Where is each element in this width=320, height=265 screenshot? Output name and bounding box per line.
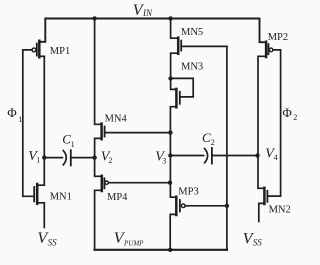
wire MN4 gate to central node <box>105 132 171 134</box>
transistor MN1 <box>34 184 44 228</box>
node junction dot MP3 gate at right bus <box>225 204 229 208</box>
wire capacitor C2 to V4 (crosses gate bus, no junction) <box>212 155 258 157</box>
wire capacitor C1 to V2 <box>71 157 95 159</box>
wire V3 to capacitor C2 <box>170 155 203 157</box>
wire phi1 gate line from MP1 bubble down to MN1 gate <box>23 50 34 196</box>
label V4 <box>265 146 277 161</box>
svg-text:Φ: Φ <box>7 105 17 120</box>
transistor MP2 <box>258 42 273 156</box>
label C1 <box>62 132 74 150</box>
wire VIN rail with corners to MP1 drain and MP2 drain <box>39 19 265 43</box>
capacitor C1 <box>63 150 71 165</box>
svg-text:2: 2 <box>211 138 215 147</box>
svg-text:IN: IN <box>142 8 153 18</box>
node junction dot MP4 gate at central vertical <box>168 181 172 185</box>
label VSS right <box>243 230 262 247</box>
transistor MP3 <box>170 197 227 250</box>
svg-text:1: 1 <box>36 156 40 165</box>
svg-text:MN4: MN4 <box>105 113 128 124</box>
svg-text:2: 2 <box>108 156 112 165</box>
svg-text:SS: SS <box>48 237 58 247</box>
node V1 junction dot <box>42 155 46 159</box>
node junction dot MN3 drain/gate <box>168 76 172 80</box>
wire phi2 gate line from MP2 bubble down to MN2 gate <box>267 50 280 196</box>
wire central vertical V3 to MP3 drain and MP4 gate junction <box>170 156 175 198</box>
label VIN <box>133 2 153 19</box>
svg-text:4: 4 <box>274 153 278 162</box>
node junction on VIN rail at MN4 drain <box>92 16 96 20</box>
node V2 junction dot <box>92 155 96 159</box>
capacitor C2 <box>205 148 212 164</box>
label V2 <box>101 149 113 165</box>
transistor MN4 with drain wire from VIN rail <box>95 19 105 158</box>
node junction dot MP3 source on VPUMP rail <box>168 248 172 252</box>
svg-text:SS: SS <box>253 238 262 248</box>
svg-text:C: C <box>202 130 211 145</box>
node V3 junction dot <box>168 153 172 157</box>
svg-text:MP3: MP3 <box>178 187 198 198</box>
wire V1 to capacitor C1 <box>44 157 62 159</box>
svg-text:Φ: Φ <box>282 105 292 120</box>
svg-text:MN3: MN3 <box>181 62 203 73</box>
transistor MN3 diode connected <box>170 78 193 155</box>
svg-text:MP2: MP2 <box>268 32 288 43</box>
transistor MN5 with drain wire from VIN rail <box>171 19 182 79</box>
svg-text:3: 3 <box>162 156 166 165</box>
wire VPUMP rail <box>95 249 227 251</box>
label phi1 <box>7 105 22 124</box>
node junction dot MN4 gate at central vertical <box>168 130 172 134</box>
label VSS left <box>37 230 57 247</box>
label VPUMP <box>114 230 144 247</box>
transistor MP1 <box>32 41 44 58</box>
svg-text:MP1: MP1 <box>50 46 70 57</box>
transistor MP4 <box>95 158 170 250</box>
node V4 junction dot <box>255 153 259 157</box>
svg-text:MN1: MN1 <box>50 191 72 202</box>
svg-text:1: 1 <box>18 115 22 124</box>
wire right gate bus MN5 gate to VPUMP rail corner <box>226 46 228 249</box>
svg-text:MP4: MP4 <box>107 192 128 203</box>
svg-text:MN5: MN5 <box>181 27 203 38</box>
wire V1 vertical: MP1 source to MN1 drain <box>37 56 44 185</box>
label C2 <box>202 130 215 147</box>
label phi2 <box>282 105 297 122</box>
svg-text:2: 2 <box>293 113 297 122</box>
label V1 <box>28 149 40 165</box>
label V3 <box>155 150 166 166</box>
wire MN5 gate to right vertical bus <box>181 45 227 47</box>
svg-text:MN2: MN2 <box>269 205 291 216</box>
node junction on VIN rail at MN5 drain <box>168 16 172 20</box>
transistor MN2 <box>258 156 267 222</box>
svg-text:PUMP: PUMP <box>123 240 144 248</box>
svg-text:1: 1 <box>71 140 75 149</box>
